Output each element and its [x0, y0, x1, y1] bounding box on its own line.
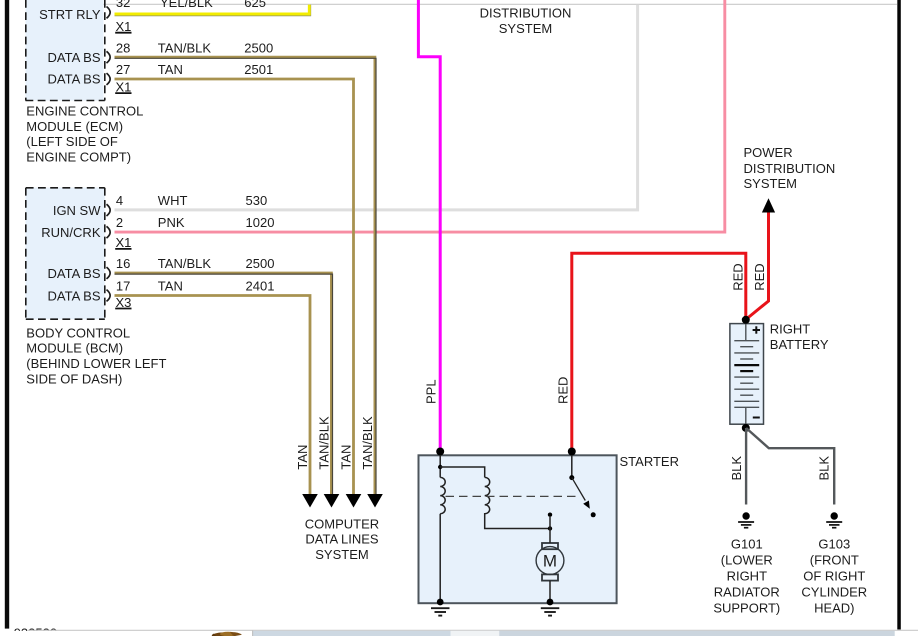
svg-text:RUN/CRK: RUN/CRK: [41, 225, 101, 240]
svg-text:CYLINDER: CYLINDER: [801, 585, 867, 600]
wire PNK 1020 from BCM pin 2: [115, 0, 725, 232]
svg-text:1020: 1020: [246, 215, 275, 230]
svg-text:DATA LINES: DATA LINES: [305, 532, 379, 547]
svg-text:27: 27: [116, 62, 130, 77]
svg-text:BODY CONTROL: BODY CONTROL: [26, 325, 130, 340]
svg-text:4: 4: [116, 193, 123, 208]
svg-text:BLK: BLK: [729, 456, 744, 481]
node coil to motor junction: [548, 526, 552, 530]
small brown thumbnail icon: [212, 632, 242, 636]
svg-text:RIGHT: RIGHT: [727, 569, 768, 584]
node battery positive terminal: [742, 316, 750, 324]
svg-text:PNK: PNK: [158, 215, 185, 230]
caption G103: [801, 537, 867, 616]
svg-text:(FRONT: (FRONT: [810, 553, 859, 568]
ECM connector pin 28 bracket: [107, 51, 111, 63]
svg-text:YEL/BLK: YEL/BLK: [160, 0, 213, 10]
svg-text:TAN/BLK: TAN/BLK: [158, 256, 212, 271]
node RED wire at starter: [568, 448, 576, 456]
svg-text:2501: 2501: [244, 62, 273, 77]
svg-text:TAN: TAN: [158, 279, 183, 294]
wire RED from battery positive to power distribution: [746, 211, 769, 320]
svg-text:TAN/BLK: TAN/BLK: [317, 416, 332, 470]
BCM caption: [26, 325, 166, 386]
linkage dashed line: [446, 495, 577, 497]
svg-text:ENGINE COMPT): ENGINE COMPT): [26, 150, 131, 165]
svg-text:17: 17: [116, 279, 130, 294]
BCM connector pin 4 bracket: [107, 204, 111, 216]
node starter ground right: [547, 599, 554, 606]
wire PPL from distribution system to starter: [418, 0, 440, 452]
solenoid pull-in coil L1: [440, 477, 445, 513]
node battery negative terminal: [742, 424, 750, 432]
motor brush block bottom: [542, 574, 558, 580]
wire TAN/BLK 2500 from ECM pin 28: [115, 57, 377, 494]
svg-text:HEAD): HEAD): [814, 601, 854, 616]
svg-text:16: 16: [116, 256, 130, 271]
svg-text:TAN: TAN: [295, 445, 310, 470]
wire TAN 2401 from BCM pin 17: [115, 296, 311, 495]
node junction below PPL entry: [438, 465, 442, 469]
svg-text:OF RIGHT: OF RIGHT: [803, 569, 865, 584]
svg-text:PPL: PPL: [423, 379, 438, 404]
motor wires: [549, 529, 551, 544]
svg-text:ENGINE CONTROL: ENGINE CONTROL: [26, 104, 143, 119]
battery plus sign: [753, 326, 760, 333]
caption RIGHT BATTERY: [770, 322, 829, 352]
starter internal wire from PPL entry: [439, 455, 441, 477]
svg-text:X1: X1: [116, 19, 132, 34]
svg-text:RED: RED: [752, 263, 767, 290]
battery minus sign: [753, 417, 760, 419]
node switch fixed contact: [591, 512, 596, 517]
node starter ground left: [437, 599, 444, 606]
motor brush block top: [542, 543, 558, 549]
svg-text:M: M: [543, 552, 557, 571]
arrow to computer data lines (wire x=310): [302, 494, 318, 508]
svg-text:WHT: WHT: [158, 193, 188, 208]
page border left: [5, 0, 9, 629]
wire TAN/BLK 2500 from BCM pin 16: [115, 273, 333, 495]
ECM connector pin 27 bracket: [107, 73, 111, 85]
starter box: [419, 455, 617, 603]
BCM connector pin 17 bracket: [107, 290, 111, 302]
BCM connector pin 16 bracket: [107, 267, 111, 279]
solenoid hold-in coil L2: [485, 477, 550, 528]
svg-text:SYSTEM: SYSTEM: [744, 176, 797, 191]
bottom separator line: [28, 629, 918, 631]
switch blade arrowhead: [583, 501, 590, 509]
svg-text:SYSTEM: SYSTEM: [499, 21, 552, 36]
svg-text:TAN/BLK: TAN/BLK: [158, 40, 212, 55]
svg-text:DATA BS: DATA BS: [48, 266, 101, 281]
svg-text:X1: X1: [116, 235, 132, 250]
BCM connector box: [26, 188, 105, 320]
starter internal wire below pull-in coil: [439, 514, 441, 603]
ECM connector pin 32 bracket: [107, 7, 111, 19]
motor M armature circle: [536, 547, 564, 575]
wire YEL/BLK 625: [115, 5, 311, 16]
svg-text:BLK: BLK: [817, 456, 832, 481]
svg-text:625: 625: [244, 0, 266, 10]
wire WHT 530 from BCM pin 4: [115, 5, 638, 210]
svg-text:TAN: TAN: [158, 62, 183, 77]
svg-text:COMPUTER: COMPUTER: [305, 516, 379, 531]
svg-text:SUPPORT): SUPPORT): [713, 601, 780, 616]
svg-text:32: 32: [116, 0, 130, 10]
svg-text:RADIATOR: RADIATOR: [714, 585, 780, 600]
svg-text:RIGHT: RIGHT: [770, 322, 811, 337]
svg-text:(LEFT SIDE OF: (LEFT SIDE OF: [26, 134, 118, 149]
svg-text:DISTRIBUTION: DISTRIBUTION: [480, 5, 572, 20]
node switch pivot: [569, 475, 574, 480]
caption POWER DISTRIBUTION SYSTEM (right): [744, 145, 836, 191]
caption COMPUTER DATA LINES SYSTEM: [305, 516, 379, 562]
svg-text:TAN: TAN: [339, 445, 354, 470]
arrow to computer data lines (wire x=331.5): [324, 494, 340, 508]
svg-text:DATA BS: DATA BS: [48, 50, 101, 65]
svg-text:MODULE (BCM): MODULE (BCM): [26, 341, 123, 356]
caption G101: [713, 537, 780, 616]
ground G103: [826, 512, 842, 527]
svg-text:X3: X3: [116, 295, 132, 310]
wire BLK to G103: [746, 428, 834, 505]
BCM connector pin 2 bracket: [107, 226, 111, 238]
svg-text:530: 530: [246, 193, 268, 208]
svg-text:28: 28: [116, 40, 130, 55]
svg-text:STRT RLY: STRT RLY: [39, 7, 101, 22]
ground G101: [738, 512, 754, 527]
svg-text:2500: 2500: [246, 256, 275, 271]
svg-text:DATA BS: DATA BS: [48, 288, 101, 303]
page border right: [897, 0, 901, 630]
svg-text:TAN/BLK: TAN/BLK: [360, 416, 375, 470]
svg-text:2500: 2500: [244, 40, 273, 55]
node PPL wire at starter: [436, 448, 444, 456]
svg-text:POWER: POWER: [744, 145, 793, 160]
motor feed stub: [549, 517, 551, 529]
svg-text:G101: G101: [731, 537, 763, 552]
svg-text:G103: G103: [818, 537, 850, 552]
ECM connector box (top cut off): [26, 0, 105, 101]
switch contact from RED entry: [571, 455, 573, 478]
wire TAN 2501 from ECM pin 27: [115, 79, 354, 495]
battery box: [730, 324, 764, 425]
svg-text:IGN SW: IGN SW: [53, 203, 101, 218]
arrow up to power distribution system: [762, 198, 775, 212]
svg-text:(LOWER: (LOWER: [721, 553, 773, 568]
svg-text:2: 2: [116, 215, 123, 230]
bottom strip panels: [253, 631, 451, 636]
svg-text:DISTRIBUTION: DISTRIBUTION: [744, 161, 836, 176]
wire BLK to G101: [745, 428, 747, 505]
svg-text:DATA BS: DATA BS: [48, 72, 101, 87]
arrow to computer data lines (wire x=353.5): [346, 494, 362, 508]
svg-text:SIDE OF DASH): SIDE OF DASH): [26, 371, 122, 386]
svg-text:(BEHIND LOWER LEFT: (BEHIND LOWER LEFT: [26, 356, 166, 371]
svg-text:MODULE (ECM): MODULE (ECM): [26, 119, 123, 134]
node motor feed stub top: [548, 513, 552, 517]
caption DISTRIBUTION SYSTEM (top, cut off): [480, 5, 572, 36]
switch blade: [572, 478, 586, 501]
battery internal plates: [734, 324, 759, 424]
svg-text:2401: 2401: [246, 279, 275, 294]
wire to second coil: [440, 467, 485, 477]
ground symbol (starter right): [541, 608, 560, 615]
svg-text:STARTER: STARTER: [620, 454, 679, 469]
svg-text:BATTERY: BATTERY: [770, 337, 829, 352]
ECM caption: [26, 104, 143, 165]
svg-text:RED: RED: [731, 263, 746, 290]
svg-text:SYSTEM: SYSTEM: [315, 547, 368, 562]
arrow to computer data lines (wire x=375): [367, 494, 383, 508]
wire RED from starter to battery positive: [572, 253, 746, 452]
wire thin gray rule across top: [104, 3, 898, 5]
svg-text:RED: RED: [555, 377, 570, 404]
ground symbol (starter left): [431, 608, 450, 615]
svg-text:X1: X1: [116, 79, 132, 94]
